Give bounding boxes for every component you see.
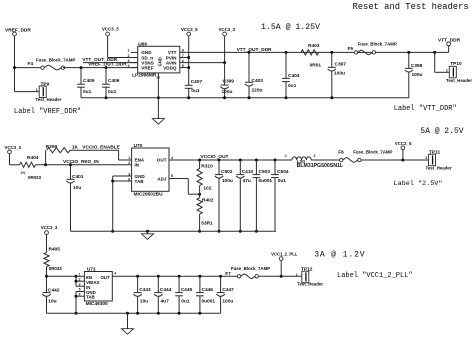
- svg-text:R404: R404: [27, 155, 39, 161]
- svg-text:R405: R405: [49, 247, 61, 253]
- svg-text:100u: 100u: [222, 89, 233, 95]
- svg-text:0u1: 0u1: [83, 89, 92, 95]
- svg-text:MIC29502BU: MIC29502BU: [134, 191, 164, 197]
- svg-text:C444: C444: [160, 287, 172, 293]
- svg-text:F4: F4: [28, 61, 34, 67]
- svg-text:C502: C502: [221, 169, 233, 175]
- svg-text:U71: U71: [87, 266, 96, 272]
- svg-text:VTT_OUT_DDR: VTT_OUT_DDR: [237, 47, 272, 53]
- svg-text:U70: U70: [134, 143, 143, 149]
- svg-text:C406: C406: [108, 78, 120, 84]
- svg-text:TAB: TAB: [86, 294, 95, 299]
- svg-text:0R01: 0R01: [310, 62, 322, 68]
- svg-text:10u: 10u: [48, 299, 56, 305]
- svg-text:VREF_OUT_DDR: VREF_OUT_DDR: [88, 61, 127, 67]
- svg-text:TP10: TP10: [450, 61, 462, 67]
- svg-text:VCC1_2_PLL: VCC1_2_PLL: [271, 252, 298, 257]
- svg-text:R403: R403: [308, 43, 320, 49]
- svg-text:C398: C398: [411, 63, 423, 69]
- svg-text:Test_Header: Test_Header: [426, 165, 452, 170]
- svg-text:F6: F6: [338, 150, 344, 156]
- svg-text:1: 1: [128, 49, 130, 53]
- svg-text:VCCIO_OUT: VCCIO_OUT: [201, 154, 229, 160]
- svg-text:GND: GND: [158, 57, 163, 66]
- svg-text:10u: 10u: [140, 299, 148, 305]
- svg-text:U66: U66: [138, 41, 147, 47]
- svg-text:1: 1: [79, 273, 81, 277]
- svg-text:C404: C404: [288, 73, 300, 79]
- svg-text:C403: C403: [252, 78, 264, 84]
- svg-text:6: 6: [79, 292, 81, 296]
- svg-text:1: 1: [446, 69, 448, 73]
- svg-text:VCC3_3: VCC3_3: [4, 145, 21, 150]
- svg-text:IN: IN: [135, 163, 140, 168]
- svg-text:C405: C405: [83, 78, 95, 84]
- svg-text:5A @ 2.5V: 5A @ 2.5V: [420, 127, 463, 136]
- svg-text:VREF: VREF: [141, 65, 153, 70]
- svg-text:C445: C445: [181, 287, 193, 293]
- svg-text:0R033: 0R033: [49, 266, 62, 271]
- svg-text:C397: C397: [335, 62, 347, 68]
- svg-text:Fuse_Block_7AMP: Fuse_Block_7AMP: [358, 42, 397, 47]
- svg-text:OUT: OUT: [101, 275, 111, 280]
- svg-text:R309: R309: [46, 144, 58, 150]
- svg-text:TP11: TP11: [429, 149, 441, 155]
- svg-text:1: 1: [425, 156, 427, 160]
- svg-text:VCC3_3: VCC3_3: [102, 27, 119, 32]
- svg-text:Reset and Test headers: Reset and Test headers: [353, 2, 469, 12]
- svg-text:C443: C443: [139, 287, 151, 293]
- svg-text:3: 3: [79, 282, 81, 286]
- svg-text:ADJ: ADJ: [157, 176, 167, 181]
- svg-text:Fuse_Block_7AMP: Fuse_Block_7AMP: [353, 150, 392, 155]
- svg-text:C442: C442: [48, 287, 60, 293]
- svg-text:1: 1: [285, 154, 287, 158]
- svg-text:1: 1: [128, 156, 130, 160]
- svg-text:0u001: 0u001: [259, 178, 273, 184]
- svg-text:F7: F7: [225, 271, 231, 277]
- svg-text:VDDQ: VDDQ: [163, 65, 177, 70]
- svg-text:3A @ 1.2V: 3A @ 1.2V: [314, 251, 365, 260]
- svg-text:VCCIO_ENABLE: VCCIO_ENABLE: [82, 144, 120, 150]
- svg-text:R310: R310: [201, 164, 213, 170]
- svg-text:VCCIO_REG_IN: VCCIO_REG_IN: [63, 159, 99, 165]
- svg-text:Fuse_Block_7AMP: Fuse_Block_7AMP: [36, 58, 75, 63]
- svg-text:VCC2_5: VCC2_5: [395, 141, 412, 146]
- svg-text:2: 2: [79, 277, 81, 281]
- svg-text:0u001: 0u001: [202, 299, 216, 305]
- svg-text:0u1: 0u1: [288, 83, 297, 89]
- svg-text:100u: 100u: [334, 71, 345, 77]
- svg-text:Label "VCC1_2_PLL": Label "VCC1_2_PLL": [337, 272, 413, 280]
- svg-text:5: 5: [79, 288, 81, 292]
- svg-text:102: 102: [203, 185, 211, 191]
- svg-text:1.5A @ 1.25V: 1.5A @ 1.25V: [261, 22, 320, 32]
- svg-text:5: 5: [171, 174, 173, 178]
- svg-text:Label "2.5V": Label "2.5V": [394, 180, 443, 188]
- svg-text:MIC49300: MIC49300: [86, 301, 108, 307]
- svg-text:TAB: TAB: [135, 179, 145, 184]
- svg-text:0R033: 0R033: [28, 175, 41, 180]
- svg-text:LP2996MR: LP2996MR: [132, 73, 157, 79]
- svg-text:4: 4: [171, 156, 173, 160]
- svg-text:220u: 220u: [252, 87, 263, 93]
- svg-text:100u: 100u: [222, 299, 233, 305]
- svg-text:C410: C410: [242, 169, 254, 175]
- svg-text:VCC3_3: VCC3_3: [41, 225, 58, 230]
- svg-text:C503: C503: [259, 169, 271, 175]
- svg-text:4: 4: [128, 64, 130, 68]
- svg-text:2: 2: [128, 161, 130, 165]
- svg-text:BLM31PG500SN1L: BLM31PG500SN1L: [297, 163, 344, 169]
- svg-text:0u1: 0u1: [191, 88, 200, 94]
- svg-text:1%: 1%: [20, 171, 25, 175]
- svg-text:TP9: TP9: [41, 81, 50, 87]
- svg-text:C504: C504: [277, 169, 289, 175]
- svg-text:R402: R402: [202, 197, 214, 203]
- svg-text:47u: 47u: [243, 178, 251, 184]
- svg-text:Test_Header: Test_Header: [446, 78, 472, 83]
- svg-text:0u1: 0u1: [108, 89, 117, 95]
- svg-text:Test_Header: Test_Header: [297, 282, 323, 287]
- svg-text:2: 2: [314, 154, 316, 158]
- svg-text:C401: C401: [72, 174, 84, 180]
- svg-text:C447: C447: [222, 287, 234, 293]
- svg-text:F5: F5: [348, 46, 354, 52]
- svg-text:0u1: 0u1: [278, 178, 287, 184]
- svg-text:VTT_DDR: VTT_DDR: [438, 37, 461, 43]
- svg-text:10u: 10u: [73, 185, 81, 191]
- svg-text:1: 1: [296, 273, 298, 277]
- svg-text:Label "VTT_DDR": Label "VTT_DDR": [394, 105, 457, 113]
- svg-text:100u: 100u: [222, 178, 233, 184]
- svg-text:VREF_DDR: VREF_DDR: [5, 28, 31, 34]
- svg-text:VCC2_5: VCC2_5: [181, 27, 198, 32]
- svg-text:TP12: TP12: [301, 267, 313, 273]
- svg-text:VCC3_3: VCC3_3: [219, 27, 236, 32]
- svg-text:4: 4: [114, 272, 116, 276]
- svg-text:1K: 1K: [72, 144, 79, 150]
- svg-text:0u1: 0u1: [181, 299, 190, 305]
- svg-text:Test_Header: Test_Header: [35, 97, 61, 102]
- svg-text:Fuse_Block_7AMP: Fuse_Block_7AMP: [231, 266, 270, 271]
- svg-text:100u: 100u: [412, 72, 423, 78]
- svg-text:C399: C399: [223, 79, 235, 85]
- svg-text:53R1: 53R1: [201, 220, 213, 226]
- svg-text:3: 3: [128, 59, 130, 63]
- svg-text:OUT: OUT: [157, 158, 167, 163]
- svg-text:C407: C407: [191, 79, 203, 85]
- svg-text:Label "VREF_DDR": Label "VREF_DDR": [14, 108, 81, 116]
- svg-text:1: 1: [36, 88, 38, 92]
- svg-text:4u7: 4u7: [161, 299, 170, 305]
- svg-text:C446: C446: [202, 287, 214, 293]
